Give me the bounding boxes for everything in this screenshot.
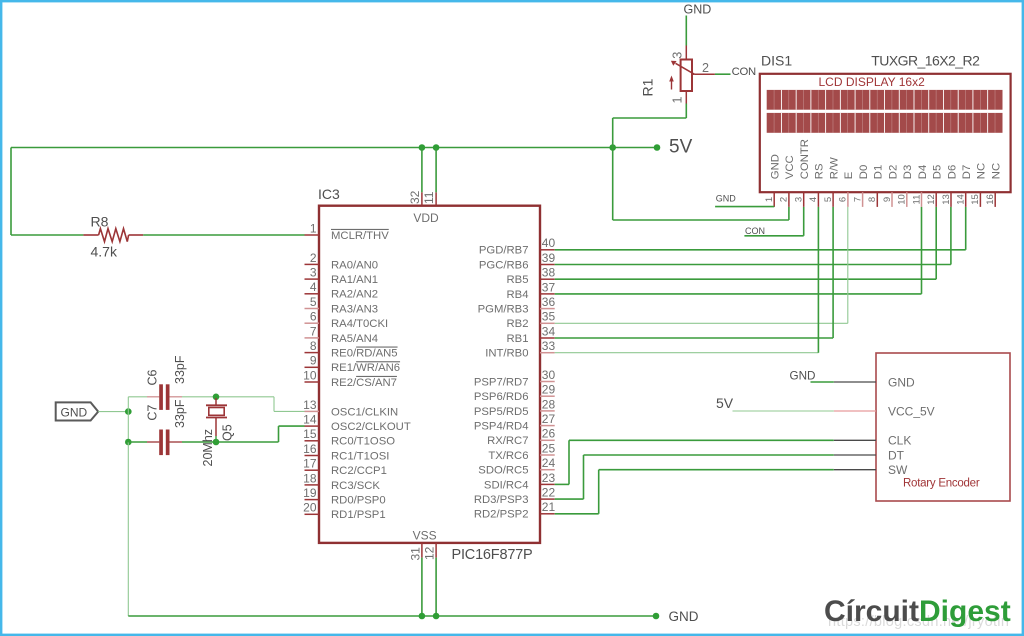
svg-text:36: 36 [542,295,556,309]
wire CLK [569,439,834,441]
svg-text:D0: D0 [858,165,870,179]
svg-text:1: 1 [764,197,775,202]
svg-text:PIC16F877P: PIC16F877P [452,547,533,563]
IC3 pin 14 OSC2/CLKOUT [305,425,320,427]
svg-text:Q5: Q5 [221,424,235,441]
IC3 pin 22 RD3/PSP3 [540,498,555,500]
wire 5V rail left drop [10,148,12,236]
svg-text:INT/RB0: INT/RB0 [485,348,528,360]
rotary encoder box [876,353,1010,501]
svg-text:RA3/AN3: RA3/AN3 [331,303,378,315]
svg-text:Rotary Encoder: Rotary Encoder [903,478,980,490]
wire LCD column x=833 [832,207,834,338]
svg-text:RC3/SCK: RC3/SCK [331,480,380,492]
svg-text:11: 11 [422,191,436,204]
svg-text:RD0/PSP0: RD0/PSP0 [331,495,386,507]
svg-text:23: 23 [542,471,556,485]
IC3 pin 12 VSS [435,543,437,558]
IC3 pin 10 RE2/CS/AN7 [305,381,320,383]
svg-text:SDI/RC4: SDI/RC4 [484,479,529,491]
IC3 pin 25 TX/RC6 [540,454,555,456]
IC3 pin 8 RE0/RD/AN5 [305,352,320,354]
svg-text:20: 20 [303,501,317,515]
junction 5V rail end [654,144,661,151]
svg-text:34: 34 [542,324,556,338]
crystal Q5 [215,398,217,405]
wire LCD pin1 GND [715,206,774,208]
IC3 pin 31 VSS [421,543,423,558]
svg-text:7: 7 [310,324,317,338]
svg-text:SW: SW [888,463,908,477]
svg-text:17: 17 [303,457,317,471]
wire LCD column x=936 [935,207,937,279]
wire IC3 pin 38 to LCD [555,278,937,280]
wire IC3 pin 39 to LCD [555,264,951,266]
svg-text:3: 3 [794,197,805,202]
svg-text:RE1/WR/AN6: RE1/WR/AN6 [331,362,400,374]
svg-text:RC2/CCP1: RC2/CCP1 [331,465,387,477]
wire bottom GND rail [128,615,656,617]
IC3 pin 20 RD1/PSP1 [305,513,320,515]
svg-text:27: 27 [542,412,556,426]
svg-text:PGC/RB6: PGC/RB6 [479,259,529,271]
svg-text:3: 3 [310,266,317,280]
junction 5V/R1 branch [609,144,616,151]
svg-text:6: 6 [838,197,849,202]
svg-text:RA1/AN1: RA1/AN1 [331,274,378,286]
svg-text:RE2/CS/AN7: RE2/CS/AN7 [331,377,397,389]
junction C7 row [125,439,132,446]
IC3 pin 29 PSP6/RD6 [540,395,555,397]
LCD module DIS1 box [760,74,1011,192]
wire junction vertical [127,397,129,442]
wire LCD column x=922 [921,207,923,294]
wire SW vertical [598,470,600,514]
svg-text:GND: GND [888,376,915,390]
svg-text:29: 29 [542,383,556,397]
svg-text:CON: CON [745,226,765,236]
capacitor C7 [128,441,147,443]
junction crystal bottom [213,439,220,446]
IC3 pin 2 RA0/AN0 [305,263,320,265]
wire LCD pin3 CONTR drop [803,207,805,236]
svg-text:16: 16 [303,442,317,456]
svg-text:35: 35 [542,310,556,324]
junction 5V/VDD pin11 [433,144,440,151]
wire C7 row to OSC2 jog [182,441,279,443]
svg-text:21: 21 [542,500,556,514]
IC3 pin 30 PSP7/RD7 [540,381,555,383]
IC3 pin 13 OSC1/CLKIN [305,410,320,412]
IC3 pin 9 RE1/WR/AN6 [305,366,320,368]
svg-text:13: 13 [303,398,317,412]
svg-text:RD2/PSP2: RD2/PSP2 [474,509,529,521]
wire IC3 pin 40 to LCD [555,249,966,251]
IC3 pin 19 RD0/PSP0 [305,499,320,501]
svg-text:VCC_5V: VCC_5V [888,405,935,419]
svg-text:40: 40 [542,236,556,250]
wire 5V to pin 11 [435,148,437,193]
svg-text:5: 5 [310,295,317,309]
svg-text:4: 4 [808,197,819,202]
svg-text:VDD: VDD [413,211,439,225]
svg-text:DIS1: DIS1 [761,53,792,69]
svg-text:9: 9 [882,197,893,202]
svg-text:OSC1/CLKIN: OSC1/CLKIN [331,406,398,418]
svg-text:TX/RC6: TX/RC6 [488,450,528,462]
trimmer R1 [685,46,687,60]
svg-text:2: 2 [779,197,790,202]
svg-text:GND: GND [669,609,699,624]
svg-text:18: 18 [303,471,317,485]
svg-text:D7: D7 [961,165,973,179]
encoder CLK pin stub [834,439,876,441]
svg-text:28: 28 [542,397,556,411]
IC3 pin 33 INT/RB0 [540,352,555,354]
wire GND to R1 pin 3 [685,16,687,46]
wire pin 12 to GND rail [435,558,437,616]
svg-text:3: 3 [671,52,685,59]
svg-text:MCLR/THV: MCLR/THV [331,230,389,242]
svg-text:D2: D2 [887,165,899,179]
svg-text:24: 24 [542,456,556,470]
svg-text:NC: NC [991,163,1003,179]
svg-text:C7: C7 [146,405,160,421]
IC3 pin 28 PSP5/RD5 [540,410,555,412]
svg-text:2: 2 [702,61,709,75]
wire pin 31 to GND rail [421,558,423,616]
wire R1 pin1 down [685,104,687,119]
svg-text:C6: C6 [146,369,160,385]
svg-text:NC: NC [976,163,988,179]
svg-text:19: 19 [303,486,317,500]
wire LCD column x=966 [965,207,967,250]
svg-text:31: 31 [409,547,423,561]
encoder GND pin stub [834,381,876,383]
svg-text:20Mhz: 20Mhz [201,429,215,467]
svg-text:2: 2 [310,251,317,265]
wire R1 pin 2 to CON [715,73,731,75]
svg-text:6: 6 [310,310,317,324]
svg-text:RC1/T1OSI: RC1/T1OSI [331,450,389,462]
svg-text:D5: D5 [932,165,944,179]
IC3 pin 11 VDD [435,192,437,205]
wire OSC2 jog vertical [278,426,280,442]
svg-text:RB4: RB4 [507,289,529,301]
svg-text:9: 9 [310,354,317,368]
wire R1 pin1 left [613,117,687,119]
IC3 pin 40 PGD/RB7 [540,249,555,251]
svg-text:RB5: RB5 [507,274,529,286]
svg-text:D3: D3 [902,165,914,179]
IC3 pin 38 RB5 [540,278,555,280]
svg-text:30: 30 [542,368,556,382]
svg-text:IC3: IC3 [318,186,340,202]
IC3 pin 4 RA2/AN2 [305,293,320,295]
svg-text:PSP6/RD6: PSP6/RD6 [474,391,529,403]
svg-text:25: 25 [542,441,556,455]
IC3 pin 21 RD2/PSP2 [540,513,555,515]
svg-text:4.7k: 4.7k [91,244,118,260]
capacitor C6 [128,396,147,398]
svg-text:RA0/AN0: RA0/AN0 [331,259,378,271]
wire LCD pin2 VCC drop [788,207,790,220]
wire DT vertical [583,455,585,499]
wire IC3 pin 37 to LCD [555,293,922,295]
IC3 pin 23 SDI/RC4 [540,483,555,485]
svg-text:38: 38 [542,266,556,280]
svg-text:15: 15 [303,427,317,441]
svg-text:PGM/RB3: PGM/RB3 [478,304,529,316]
svg-text:LCD DISPLAY 16x2: LCD DISPLAY 16x2 [819,75,926,89]
wire CLK vertical [568,440,570,484]
svg-text:RX/RC7: RX/RC7 [487,435,528,447]
svg-text:22: 22 [542,486,556,500]
svg-text:11: 11 [911,195,922,205]
IC3 pin 16 RC1/T1OSI [305,455,320,457]
svg-text:GND: GND [716,194,737,204]
svg-text:CLK: CLK [888,434,911,448]
svg-text:RD1/PSP1: RD1/PSP1 [331,509,386,521]
svg-text:10: 10 [897,194,908,205]
svg-text:GND: GND [684,3,712,17]
IC3 pin 37 RB4 [540,293,555,295]
svg-text:CírcuitDigest: CírcuitDigest [824,595,1011,628]
encoder DT pin stub [834,454,876,456]
wire SW [599,469,834,471]
wire to IC3 pin 14 OSC2 [279,425,305,427]
encoder VCC_5V pin stub [834,410,876,412]
IC3 pin 18 RC3/SCK [305,484,320,486]
IC3 pin 15 RC0/T1OSO [305,440,320,442]
svg-text:8: 8 [867,197,878,202]
wire GND to encoder [811,381,834,383]
svg-text:14: 14 [303,413,317,427]
svg-text:14: 14 [956,194,967,205]
svg-text:33pF: 33pF [173,399,187,428]
svg-text:1: 1 [310,221,317,235]
IC3 pin 26 RX/RC7 [540,439,555,441]
svg-text:OSC2/CLKOUT: OSC2/CLKOUT [331,421,411,433]
IC3 pin 1 MCLR/THV [305,234,320,236]
svg-text:E: E [843,171,855,179]
svg-text:D1: D1 [873,165,885,179]
svg-text:R/W: R/W [828,157,840,179]
svg-text:33pF: 33pF [173,355,187,384]
svg-text:1: 1 [671,96,685,103]
svg-text:DT: DT [888,448,905,462]
wire OSC1 jog vertical [273,397,275,412]
svg-text:GND: GND [790,370,816,383]
wire IC3 pin 34 to LCD [555,337,833,339]
wire to IC3 pin 13 OSC1 [274,410,305,412]
svg-text:D4: D4 [917,165,929,179]
svg-text:33: 33 [542,339,556,353]
wire R8 to IC3 pin 1 [143,234,304,236]
wire DT to pin 22 [555,498,584,500]
IC3 pin 35 RB2 [540,322,555,324]
svg-text:RA2/AN2: RA2/AN2 [331,289,378,301]
junction crystal top [213,394,220,401]
wire LCD column x=848 [847,207,849,323]
IC3 pin 39 PGC/RB6 [540,264,555,266]
svg-text:RB1: RB1 [507,333,529,345]
wire down to GND rail [127,442,129,616]
svg-text:16: 16 [985,194,996,205]
svg-text:39: 39 [542,251,556,265]
svg-text:RA5/AN4: RA5/AN4 [331,333,378,345]
svg-text:PGD/RB7: PGD/RB7 [479,245,529,257]
svg-text:RB2: RB2 [507,318,529,330]
wire DT [584,454,834,456]
svg-text:VSS: VSS [413,529,437,543]
svg-text:VCC: VCC [784,155,796,179]
svg-text:CON: CON [732,66,756,78]
wire IC3 pin 35 to LCD [555,322,848,324]
svg-text:37: 37 [542,280,556,294]
junction VSS pin31 rail [419,613,426,620]
wire SW to pin 21 [555,513,599,515]
svg-text:D6: D6 [946,165,958,179]
R1 pin 1 stub [685,91,687,104]
wire 5V to LCD pin 2 VCC [613,219,789,221]
svg-text:GND: GND [61,405,88,419]
svg-text:7: 7 [852,197,863,202]
svg-text:13: 13 [941,194,952,205]
IC3 pin 27 PSP4/RD4 [540,425,555,427]
svg-text:RA4/T0CKI: RA4/T0CKI [331,318,388,330]
junction GND column [125,408,132,415]
IC3 pin 24 SDO/RC5 [540,469,555,471]
wire GND flag to junction [98,411,128,413]
wire CLK to pin 23 [555,483,569,485]
svg-text:12: 12 [423,546,437,560]
svg-text:32: 32 [408,190,422,204]
svg-text:10: 10 [303,368,317,382]
svg-text:8: 8 [310,339,317,353]
wire LCD column x=818 [817,207,819,353]
IC3 pin 5 RA3/AN3 [305,308,320,310]
IC3 pin 3 RA1/AN1 [305,278,320,280]
junction 5V/VDD pin32 [419,144,426,151]
op-amp: IC3 PIC16F877P microcontroller box [319,206,540,543]
IC3 pin 32 VDD [421,192,423,205]
IC3 pin 17 RC2/CCP1 [305,469,320,471]
svg-text:GND: GND [770,154,782,179]
svg-text:26: 26 [542,427,556,441]
encoder SW pin stub [834,469,876,471]
svg-text:RS: RS [814,163,826,179]
svg-text:12: 12 [926,194,937,205]
wire LCD column x=951 [950,207,952,265]
svg-text:R8: R8 [91,214,109,230]
svg-text:TUXGR_16X2_R2: TUXGR_16X2_R2 [871,53,980,69]
wire 5V to pin 32 [421,148,423,193]
IC3 pin 36 PGM/RB3 [540,308,555,310]
junction GND rail end [653,613,660,620]
svg-text:RC0/T1OSO: RC0/T1OSO [331,436,395,448]
IC3 pin 34 RB1 [540,337,555,339]
wire 5V to encoder [733,410,834,412]
wire CON to LCD pin3 [744,235,803,237]
svg-text:SDO/RC5: SDO/RC5 [478,465,528,477]
wire R1 branch vertical [612,118,614,220]
resistor R8 [11,234,83,236]
svg-text:4: 4 [310,280,317,294]
svg-text:5V: 5V [716,395,734,411]
wire IC3 pin 33 to LCD [555,352,819,354]
IC3 pin 6 RA4/T0CKI [305,322,320,324]
wire 5V rail [11,147,657,149]
junction VSS pin12 rail [433,613,440,620]
svg-text:15: 15 [970,194,981,205]
svg-text:RD3/PSP3: RD3/PSP3 [474,494,529,506]
wire C6 row to OSC1 jog [182,396,274,398]
svg-text:PSP5/RD5: PSP5/RD5 [474,406,529,418]
IC3 pin 7 RA5/AN4 [305,337,320,339]
LCD character blocks row 1 and row 2 [767,90,1003,110]
svg-text:RE0/RD/AN5: RE0/RD/AN5 [331,348,398,360]
svg-text:R1: R1 [640,78,656,96]
svg-text:5: 5 [823,197,834,202]
ground flag GND [56,402,98,420]
svg-text:PSP7/RD7: PSP7/RD7 [474,376,529,388]
svg-text:PSP4/RD4: PSP4/RD4 [474,421,529,433]
svg-text:CONTR: CONTR [799,139,811,179]
svg-text:5V: 5V [669,137,693,158]
